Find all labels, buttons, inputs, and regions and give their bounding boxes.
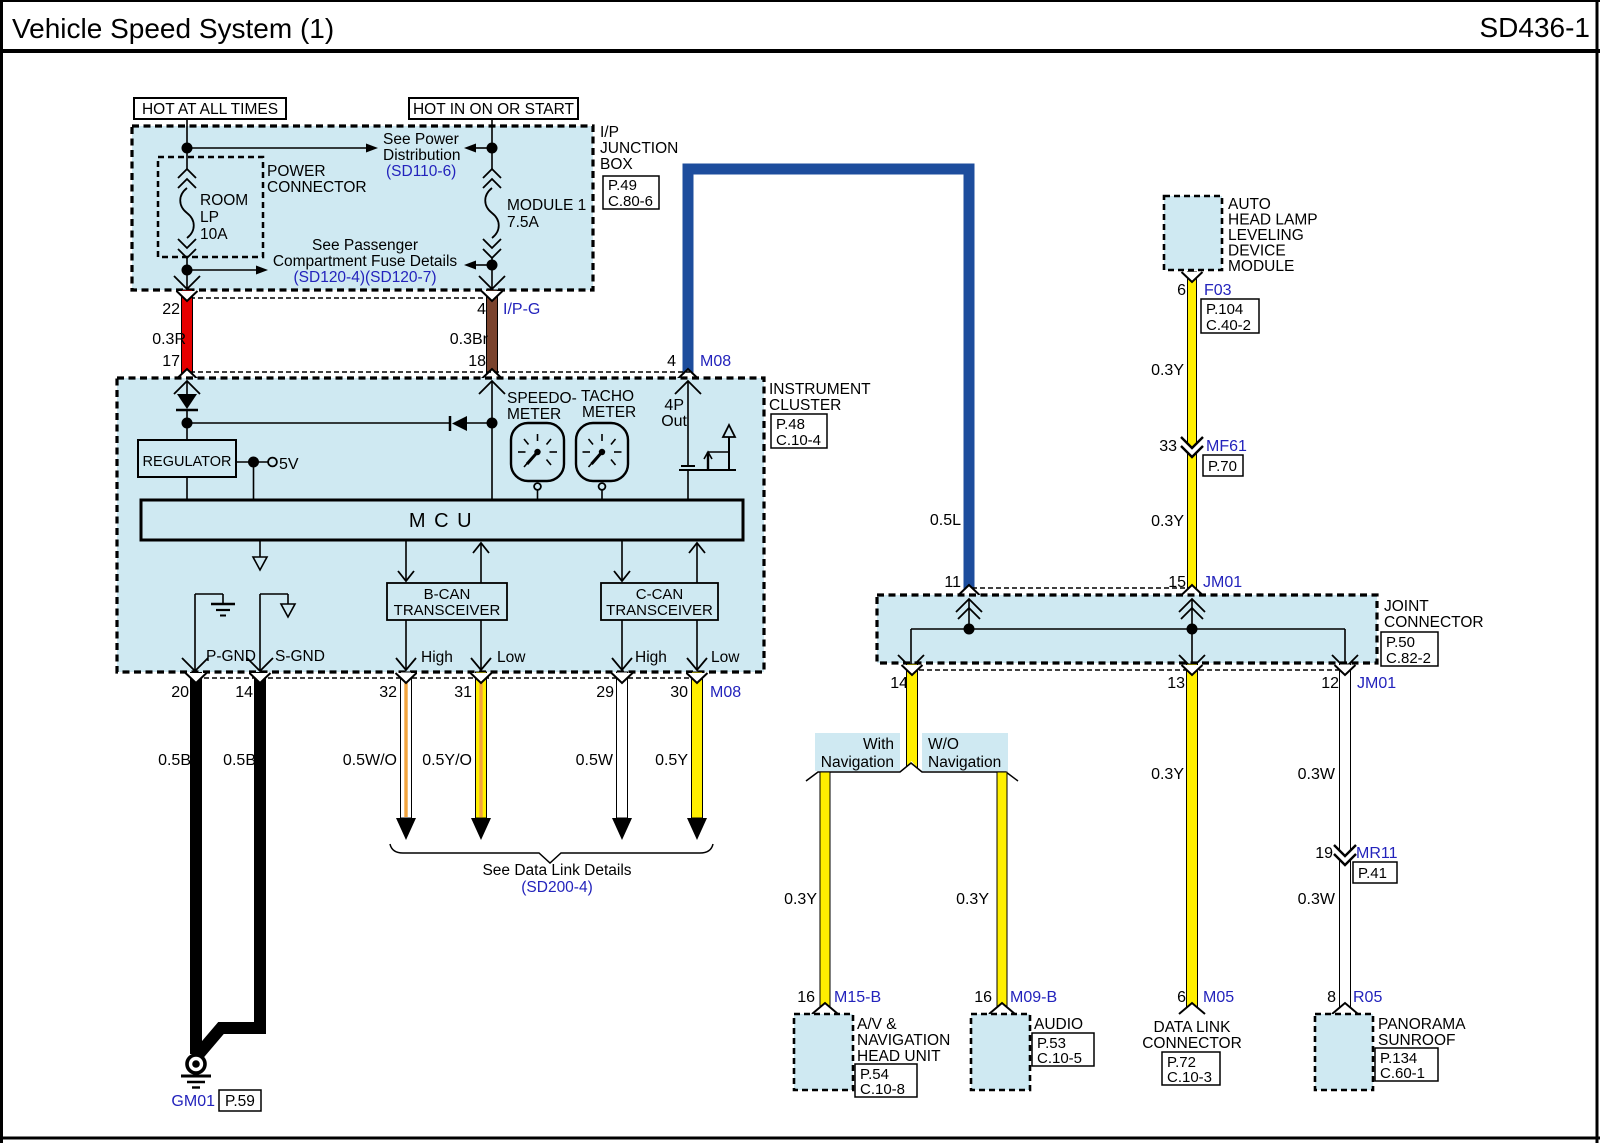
svg-text:MODULE: MODULE (1228, 258, 1294, 275)
brace for data link wires (390, 844, 713, 863)
svg-text:BOX: BOX (600, 156, 633, 173)
POWER CONNECTOR box (158, 157, 263, 257)
diode D1 vertical (177, 394, 197, 409)
arrow to See Passenger fuse details (right) (476, 264, 492, 266)
svg-text:CONNECTOR: CONNECTOR (1384, 614, 1484, 631)
svg-text:30: 30 (670, 684, 688, 701)
page frame right border (1596, 0, 1599, 1143)
C-CAN High output (621, 620, 623, 670)
svg-text:JUNCTION: JUNCTION (600, 140, 678, 157)
wire from HOT IN ON OR START into junction box (491, 118, 493, 169)
svg-text:4: 4 (477, 301, 486, 318)
node below ROOM LP fuse (182, 265, 193, 276)
svg-text:Compartment Fuse Details: Compartment Fuse Details (273, 253, 458, 270)
arrow to See Passenger fuse details (left) (187, 269, 256, 271)
svg-text:8: 8 (1327, 989, 1336, 1006)
MCU to C-CAN arrow (621, 540, 623, 581)
connector row dashed line M08 above cluster (190, 371, 690, 373)
wire 32 end arrow (396, 818, 416, 840)
svg-text:0.3Br: 0.3Br (450, 331, 489, 348)
svg-text:With: With (863, 736, 894, 753)
svg-text:HEAD UNIT: HEAD UNIT (857, 1048, 941, 1065)
svg-text:INSTRUMENT: INSTRUMENT (769, 381, 871, 398)
svg-text:CONNECTOR: CONNECTOR (1142, 1035, 1242, 1052)
svg-text:16: 16 (797, 989, 815, 1006)
arrow to See Power Distribution (left) (187, 147, 366, 149)
svg-text:Low: Low (497, 649, 526, 666)
page frame left border (0, 0, 3, 1143)
node regulator input (182, 418, 193, 429)
svg-text:22: 22 (162, 301, 180, 318)
svg-text:17: 17 (162, 353, 180, 370)
svg-text:LP: LP (200, 209, 219, 226)
W/O Navigation option label (922, 733, 1008, 771)
svg-text:MODULE 1: MODULE 1 (507, 197, 586, 214)
svg-text:GM01: GM01 (171, 1093, 215, 1110)
diode D2 horizontal (449, 416, 452, 431)
cluster border arrow pin 17 (174, 381, 200, 394)
svg-text:METER: METER (582, 404, 636, 421)
INSTRUMENT CLUSTER box (117, 378, 764, 672)
inline connector MF61 pin 33 (1181, 437, 1203, 457)
svg-text:SUNROOF: SUNROOF (1378, 1032, 1456, 1049)
svg-text:CONNECTOR: CONNECTOR (267, 179, 367, 196)
svg-text:M C U: M C U (409, 510, 473, 532)
joint connector arrow pin 13 (1191, 629, 1193, 668)
audio page ref P.53 C.10-5 (1032, 1033, 1094, 1066)
svg-text:12: 12 (1321, 675, 1339, 692)
fuse ROOM LP 10A (178, 169, 196, 178)
node joint pin 15 (1187, 624, 1198, 635)
svg-text:0.5B: 0.5B (158, 752, 191, 769)
svg-text:6: 6 (1177, 989, 1186, 1006)
svg-text:C.82-2: C.82-2 (1386, 650, 1431, 667)
svg-text:0.3W: 0.3W (1298, 766, 1336, 783)
svg-text:Navigation: Navigation (928, 754, 1001, 771)
wire 0.5Y/O pin 31 (476, 672, 487, 818)
joint connector bus wire (911, 628, 1345, 630)
JOINT CONNECTOR box (877, 595, 1377, 663)
svg-text:HOT IN ON OR START: HOT IN ON OR START (413, 101, 575, 118)
svg-text:0.3Y: 0.3Y (956, 891, 989, 908)
connector MR11 page ref P.41 (1353, 862, 1397, 883)
svg-text:TRANSCEIVER: TRANSCEIVER (394, 602, 501, 619)
svg-text:14: 14 (235, 684, 253, 701)
wire 0.3Y F03 to JM01 pin 15 (1188, 272, 1197, 594)
svg-text:NAVIGATION: NAVIGATION (857, 1032, 950, 1049)
MCU U2 (141, 500, 743, 540)
wire 0.5W pin 29 (617, 672, 628, 818)
svg-text:PANORAMA: PANORAMA (1378, 1016, 1466, 1033)
label box HOT IN ON OR START (409, 98, 578, 119)
svg-text:M05: M05 (1203, 989, 1234, 1006)
svg-text:(SD120-4)(SD120-7): (SD120-4)(SD120-7) (294, 269, 437, 286)
S-GND wire (259, 594, 261, 671)
cluster border arrow pin 20 (182, 658, 208, 671)
connector row dashed line M08 below cluster (196, 677, 697, 679)
svg-text:C.80-6: C.80-6 (608, 193, 653, 210)
ground GM01 symbol (187, 1055, 205, 1073)
svg-text:ROOM: ROOM (200, 192, 248, 209)
svg-text:High: High (635, 649, 667, 666)
connector row dashed line above joint connector (972, 587, 1189, 589)
svg-text:0.5L: 0.5L (930, 512, 961, 529)
svg-text:R05: R05 (1353, 989, 1382, 1006)
cluster border arrow pin 14 (247, 658, 273, 671)
svg-text:0.3R: 0.3R (152, 331, 186, 348)
svg-text:JOINT: JOINT (1384, 598, 1429, 615)
junction box border arrow pin 22 (174, 276, 200, 289)
svg-text:20: 20 (171, 684, 189, 701)
svg-text:AUDIO: AUDIO (1034, 1016, 1083, 1033)
svg-text:JM01: JM01 (1203, 574, 1242, 591)
wire 30 end arrow (687, 818, 707, 840)
With Navigation option label (815, 733, 900, 771)
svg-text:TRANSCEIVER: TRANSCEIVER (606, 602, 713, 619)
C-CAN Low output (696, 620, 698, 670)
svg-text:C.10-8: C.10-8 (860, 1081, 905, 1098)
page frame bottom border (0, 1137, 1600, 1140)
svg-text:11: 11 (944, 574, 961, 591)
svg-text:Out: Out (661, 413, 687, 430)
svg-text:DEVICE: DEVICE (1228, 243, 1286, 260)
svg-text:7.5A: 7.5A (507, 214, 540, 231)
svg-text:4P: 4P (664, 397, 684, 414)
svg-text:MR11: MR11 (1356, 845, 1398, 862)
svg-text:P.41: P.41 (1358, 865, 1387, 882)
svg-text:M09-B: M09-B (1010, 989, 1057, 1006)
svg-text:0.5W/O: 0.5W/O (343, 752, 397, 769)
svg-text:16: 16 (974, 989, 992, 1006)
MCU to B-CAN arrow (405, 540, 407, 581)
tachometer stem (599, 483, 606, 490)
svg-text:Distribution: Distribution (383, 147, 461, 164)
page frame top border (0, 0, 1600, 2)
svg-text:0.3Y: 0.3Y (1151, 766, 1184, 783)
svg-text:High: High (421, 649, 453, 666)
node at hot-in-on feed (487, 143, 498, 154)
tachometer gauge (576, 423, 628, 481)
svg-text:0.5W: 0.5W (576, 752, 614, 769)
node 5V branch (248, 457, 259, 468)
joint connector page ref P.50 C.82-2 (1381, 632, 1438, 666)
svg-text:A/V &: A/V & (857, 1016, 897, 1033)
svg-text:METER: METER (507, 406, 561, 423)
svg-text:W/O: W/O (928, 736, 959, 753)
svg-text:SPEEDO-: SPEEDO- (507, 390, 577, 407)
svg-text:See Power: See Power (383, 131, 459, 148)
svg-text:C.10-3: C.10-3 (1167, 1069, 1212, 1086)
svg-text:0.5B: 0.5B (223, 752, 256, 769)
svg-text:DATA LINK: DATA LINK (1154, 1019, 1232, 1036)
svg-text:33: 33 (1159, 438, 1177, 455)
svg-text:F03: F03 (1204, 282, 1232, 299)
svg-text:M08: M08 (700, 353, 731, 370)
data link connector page ref P.72 C.10-3 (1162, 1052, 1220, 1085)
node below MODULE 1 fuse (487, 260, 498, 271)
cluster page ref P.48 C.10-4 (771, 414, 827, 448)
wire 0.3Y with-navigation branch (820, 772, 830, 1013)
connector row dashed line below joint connector (911, 669, 1345, 671)
svg-text:C.10-4: C.10-4 (776, 432, 821, 449)
svg-text:Navigation: Navigation (821, 754, 894, 771)
wire 0.5B pin 20 to ground (190, 672, 202, 1054)
PANORAMA SUNROOF box (1315, 1014, 1373, 1090)
C-CAN to MCU arrow (696, 543, 698, 583)
panorama sunroof page ref P.134 C.60-1 (1375, 1048, 1438, 1081)
svg-text:C.40-2: C.40-2 (1206, 317, 1251, 334)
svg-text:I/P-G: I/P-G (503, 301, 540, 318)
svg-text:0.5Y: 0.5Y (655, 752, 688, 769)
svg-text:See Data Link Details: See Data Link Details (482, 862, 631, 879)
speedometer stem (534, 483, 541, 490)
svg-text:TACHO: TACHO (581, 388, 634, 405)
svg-text:LEVELING: LEVELING (1228, 227, 1304, 244)
svg-text:(SD200-4): (SD200-4) (521, 879, 593, 896)
wire 0.5B pin 14 to ground (198, 672, 260, 1055)
svg-text:P.49: P.49 (608, 177, 637, 194)
wire 0.3Y w/o-navigation branch (997, 772, 1007, 1013)
svg-text:P.104: P.104 (1206, 301, 1243, 318)
wire 0.3W joint pin 12 to panorama sunroof (1340, 664, 1351, 1013)
node pin18 branch (487, 418, 498, 429)
wire 4P driver to MCU (687, 470, 689, 500)
svg-text:18: 18 (468, 353, 486, 370)
svg-text:C.60-1: C.60-1 (1380, 1065, 1425, 1082)
B-CAN TRANSCEIVER U3 (387, 583, 507, 620)
P-GND wire and chassis ground (194, 594, 196, 671)
wire 0.5L blue from cluster pin 4 to joint connector pin 11 (688, 169, 969, 594)
connector MF61 page ref P.70 (1203, 455, 1243, 476)
wire 0.5W/O pin 32 (401, 672, 412, 818)
AUDIO box (971, 1014, 1030, 1090)
wire 0.5Y pin 30 (692, 672, 703, 818)
REGULATOR U1 (138, 440, 236, 477)
svg-text:(SD110-6): (SD110-6) (386, 163, 456, 180)
B-CAN High output (405, 620, 407, 670)
svg-text:0.5Y/O: 0.5Y/O (422, 752, 472, 769)
svg-text:6: 6 (1177, 282, 1186, 299)
inline connector MR11 pin 19 (1334, 845, 1356, 865)
svg-text:10A: 10A (200, 226, 228, 243)
svg-text:B-CAN: B-CAN (424, 586, 471, 603)
svg-text:P.59: P.59 (225, 1093, 255, 1110)
svg-text:13: 13 (1167, 675, 1185, 692)
svg-text:31: 31 (454, 684, 472, 701)
joint connector arrow pin 14 (910, 629, 912, 668)
connector F03 page ref P.104 C.40-2 (1201, 299, 1259, 333)
I/P junction box page ref P.49 C.80-6 (603, 176, 659, 209)
joint connector arrow pin 12 (1344, 629, 1346, 668)
wire 31 end arrow (471, 818, 491, 840)
B-CAN to MCU arrow (480, 543, 482, 583)
svg-text:14: 14 (890, 675, 908, 692)
svg-text:JM01: JM01 (1357, 675, 1396, 692)
wire 0.3Br brown pin 4 to pin 18 I/P-G (487, 290, 498, 378)
cluster border arrow pin 18 (479, 381, 505, 394)
svg-text:See Passenger: See Passenger (312, 237, 418, 254)
C-CAN TRANSCEIVER U4 (601, 583, 718, 620)
svg-text:S-GND: S-GND (275, 648, 325, 665)
svg-text:Low: Low (711, 649, 740, 666)
svg-text:I/P: I/P (600, 124, 619, 141)
svg-text:32: 32 (379, 684, 397, 701)
svg-text:0.3Y: 0.3Y (1151, 513, 1184, 530)
svg-text:HEAD LAMP: HEAD LAMP (1228, 212, 1318, 229)
arrow to See Power Distribution (right) (476, 147, 492, 149)
svg-text:C-CAN: C-CAN (636, 586, 684, 603)
svg-text:19: 19 (1315, 845, 1333, 862)
wire 0.3R red pin 22 to pin 17 (182, 290, 193, 378)
svg-text:M15-B: M15-B (834, 989, 881, 1006)
svg-text:4: 4 (667, 353, 676, 370)
wire to horizontal diode (187, 422, 450, 424)
A/V & NAVIGATION HEAD UNIT box (794, 1014, 853, 1090)
svg-text:CLUSTER: CLUSTER (769, 397, 841, 414)
A/V head unit page ref P.54 C.10-8 (855, 1064, 917, 1097)
wire 29 end arrow (612, 818, 632, 840)
4P output driver symbol (681, 465, 695, 467)
I/P junction box (132, 126, 593, 290)
svg-text:M08: M08 (710, 684, 741, 701)
junction box border arrow pin 4 (479, 276, 505, 289)
B-CAN Low output (480, 620, 482, 670)
wire from HOT AT ALL TIMES into junction box (186, 118, 188, 169)
svg-text:P.70: P.70 (1208, 458, 1237, 475)
svg-text:0.3Y: 0.3Y (784, 891, 817, 908)
svg-text:SD436-1: SD436-1 (1479, 12, 1590, 43)
wire 0.3Y joint pin 14 to navigation split (907, 664, 918, 770)
MCU ground arrow (259, 540, 261, 557)
svg-text:29: 29 (596, 684, 614, 701)
svg-text:P.50: P.50 (1386, 634, 1415, 651)
wire 0.3Y joint pin 13 to data link connector (1187, 664, 1198, 1013)
svg-text:P.48: P.48 (776, 416, 805, 433)
svg-text:MF61: MF61 (1206, 438, 1247, 455)
title separator line (0, 49, 1600, 53)
svg-text:AUTO: AUTO (1228, 196, 1271, 213)
svg-text:POWER: POWER (267, 163, 326, 180)
svg-text:15: 15 (1168, 574, 1186, 591)
5V terminal circle (268, 458, 277, 467)
node at hot-at-all-times feed (182, 143, 193, 154)
wire 5V to MCU (253, 462, 255, 500)
svg-text:Vehicle Speed System (1): Vehicle Speed System (1) (12, 13, 334, 44)
svg-text:REGULATOR: REGULATOR (143, 454, 232, 470)
svg-text:C.10-5: C.10-5 (1037, 1050, 1082, 1067)
fuse MODULE 1 7.5A (483, 169, 501, 178)
speedometer gauge (511, 423, 564, 481)
svg-text:5V: 5V (279, 456, 299, 473)
wire regulator to MCU (186, 477, 188, 500)
ground page ref P.59 (219, 1090, 261, 1111)
label box HOT AT ALL TIMES (134, 98, 286, 119)
joint connector arrow pin 15 (1191, 600, 1193, 629)
node joint pin 11 (964, 624, 975, 635)
svg-text:0.3W: 0.3W (1298, 891, 1336, 908)
svg-text:HOT AT ALL TIMES: HOT AT ALL TIMES (142, 101, 278, 118)
joint connector arrow pin 11 (968, 600, 970, 629)
navigation option split (903, 761, 920, 771)
cluster border arrow pin 4 M08 (675, 381, 701, 394)
svg-text:0.3Y: 0.3Y (1151, 362, 1184, 379)
regulator 5V output wire (236, 461, 268, 463)
AUTO HEAD LAMP LEVELING DEVICE MODULE box (1164, 196, 1222, 270)
connector row dashed line below junction box (190, 297, 495, 299)
svg-text:P-GND: P-GND (206, 648, 256, 665)
